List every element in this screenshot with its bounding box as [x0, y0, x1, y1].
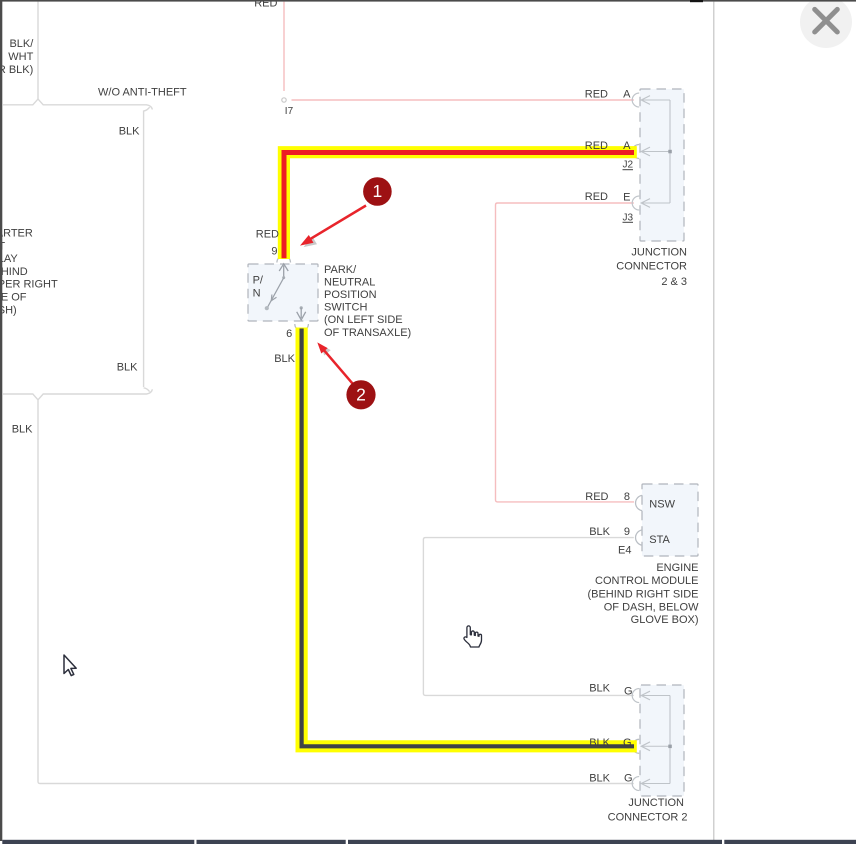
switch up arrow at pin 9 — [279, 264, 288, 277]
switch pivot contact dot — [265, 306, 269, 310]
svg-text:SWITCH: SWITCH — [324, 302, 367, 314]
splice I7 — [282, 98, 286, 102]
JC23 pin A middle (J2): arc, arrow, shaft — [641, 147, 670, 156]
svg-text:JUNCTION: JUNCTION — [628, 797, 684, 809]
brace bottom (option merge) — [3, 388, 152, 400]
svg-text:6: 6 — [286, 328, 292, 340]
svg-text:1: 1 — [373, 181, 383, 201]
JC23 bracket node dot — [668, 150, 672, 154]
svg-text:BLK/: BLK/ — [9, 38, 34, 50]
svg-text:ENGINE: ENGINE — [656, 562, 698, 574]
wire RED junction J3 pin E to ECM pin 8 — [496, 203, 635, 502]
highlighted BLK wire yellow band (P/N switch pin 6 to junction connector 2 pin G) — [302, 328, 637, 747]
JC2 pin G top: arc, arrow, shaft — [632, 689, 670, 703]
svg-text:G: G — [624, 773, 633, 785]
svg-text:OF TRANSAXLE): OF TRANSAXLE) — [324, 327, 411, 339]
wire RED splice I7 to junction connector pin A — [292, 99, 634, 101]
svg-text:STARTER: STARTER — [0, 228, 33, 240]
svg-text:JUNCTION: JUNCTION — [631, 246, 687, 258]
JC2 bracket — [669, 696, 671, 784]
svg-text:BLK: BLK — [12, 423, 33, 435]
svg-text:RED: RED — [585, 191, 608, 203]
svg-text:G: G — [623, 737, 632, 749]
park/neutral position switch box — [248, 264, 318, 321]
top border line — [0, 0, 856, 2]
svg-text:RED: RED — [256, 228, 279, 240]
svg-text:RED: RED — [585, 491, 608, 503]
svg-text:9: 9 — [624, 526, 630, 538]
svg-text:I7: I7 — [285, 106, 294, 117]
wire BLK ECM pin 9 STA to junction connector 2 pin G — [423, 538, 633, 696]
svg-text:G: G — [624, 686, 633, 698]
callout 1 badge — [363, 177, 392, 206]
svg-text:POSITION: POSITION — [324, 289, 377, 301]
callout arrow 1 — [309, 206, 367, 241]
ECM pin 8 arc — [636, 495, 642, 510]
JC2 middle pin arc (under highlight) — [632, 739, 639, 753]
JC2 pin G bottom: arc, arrow, shaft — [632, 777, 670, 791]
svg-text:CONTROL MODULE: CONTROL MODULE — [595, 575, 699, 587]
svg-text:DASH): DASH) — [0, 304, 17, 316]
svg-text:SIDE OF: SIDE OF — [0, 292, 27, 304]
svg-text:CONNECTOR 2: CONNECTOR 2 — [608, 811, 688, 823]
svg-text:(ON LEFT SIDE: (ON LEFT SIDE — [324, 314, 403, 326]
svg-text:BLK: BLK — [589, 737, 610, 749]
svg-text:BLK: BLK — [117, 361, 138, 373]
svg-text:GLOVE BOX): GLOVE BOX) — [631, 614, 699, 626]
JC23 bracket — [669, 100, 671, 203]
svg-text:BLK: BLK — [589, 526, 610, 538]
switch pin 6 arc — [295, 324, 309, 331]
callout arrow 2 — [323, 349, 353, 383]
svg-text:PARK/: PARK/ — [324, 264, 357, 276]
svg-text:A: A — [623, 140, 631, 152]
svg-text:E: E — [623, 191, 630, 203]
right separator line — [713, 2, 715, 840]
wire BLK left-bottom run to junction connector 2 pin G — [38, 400, 634, 784]
svg-text:STA: STA — [649, 534, 670, 546]
close button — [800, 0, 852, 48]
svg-text:J2: J2 — [622, 160, 633, 171]
svg-text:8: 8 — [624, 491, 630, 503]
highlighted RED wire core — [284, 153, 634, 259]
JC23 pin J2 arc (under highlight) — [632, 145, 639, 159]
svg-text:UPPER RIGHT: UPPER RIGHT — [0, 279, 58, 291]
svg-text:RED: RED — [585, 140, 608, 152]
svg-text:WHT: WHT — [8, 51, 33, 63]
switch pin 9 arc — [277, 256, 291, 263]
svg-text:CONNECTOR: CONNECTOR — [616, 261, 687, 273]
switch contact arm with chevron — [267, 278, 284, 308]
wire BLK top-left vertical — [37, 2, 39, 99]
svg-text:BLK: BLK — [589, 683, 610, 695]
switch arm top node — [282, 276, 285, 279]
svg-text:A: A — [623, 88, 631, 100]
hand cursor — [464, 626, 482, 647]
svg-text:J3: J3 — [622, 212, 633, 223]
svg-text:(BEHIND RIGHT SIDE: (BEHIND RIGHT SIDE — [587, 589, 698, 601]
svg-text:(OR BLK): (OR BLK) — [0, 64, 33, 76]
svg-text:(BEHIND: (BEHIND — [0, 266, 28, 278]
JC2 pin G middle: arc, arrow, shaft — [641, 742, 670, 751]
svg-text:OF DASH, BELOW: OF DASH, BELOW — [604, 601, 699, 613]
svg-text:P/: P/ — [253, 274, 264, 286]
svg-text:RED: RED — [585, 88, 608, 100]
junction connector 2 & 3 box — [640, 89, 684, 241]
wire BLK mid vertical — [143, 111, 145, 388]
svg-text:E4: E4 — [618, 545, 631, 557]
svg-text:RELAY: RELAY — [0, 253, 18, 265]
top border black segment — [690, 0, 703, 2]
svg-text:NSW: NSW — [649, 499, 675, 511]
svg-text:W/O ANTI-THEFT: W/O ANTI-THEFT — [98, 86, 187, 98]
brace top (option split) — [3, 99, 152, 111]
left border bar — [0, 0, 2, 841]
highlighted BLK wire core — [302, 329, 634, 747]
svg-text:2 & 3: 2 & 3 — [661, 276, 687, 288]
JC23 pin E (J3): arc, arrow, shaft — [632, 196, 670, 210]
bottom table border — [2, 840, 856, 844]
JC23 pin A top: arc, arrow, shaft — [632, 93, 670, 107]
ECM pin 9 arc — [636, 530, 642, 545]
switch down arrow at pin 6 — [300, 306, 303, 309]
wire RED top vertical (to splice I7) — [283, 2, 285, 91]
callout arrow 1 shadow — [304, 237, 318, 248]
engine control module box — [642, 484, 698, 556]
svg-text:BLK: BLK — [119, 125, 140, 137]
svg-text:BLK: BLK — [274, 353, 295, 365]
callout 2 badge — [346, 380, 375, 409]
svg-text:NEUTRAL: NEUTRAL — [324, 276, 375, 288]
callout arrow 2 shadow — [320, 344, 330, 355]
highlighted RED wire yellow band (J2 pin A to P/N switch pin 9) — [284, 152, 637, 259]
JC2 bracket node dot — [668, 745, 672, 749]
svg-text:N: N — [253, 288, 261, 300]
svg-text:2: 2 — [356, 385, 366, 405]
junction connector 2 box — [640, 685, 684, 796]
svg-text:9: 9 — [271, 246, 277, 258]
mouse arrow cursor — [64, 655, 76, 676]
svg-text:BLK: BLK — [589, 773, 610, 785]
